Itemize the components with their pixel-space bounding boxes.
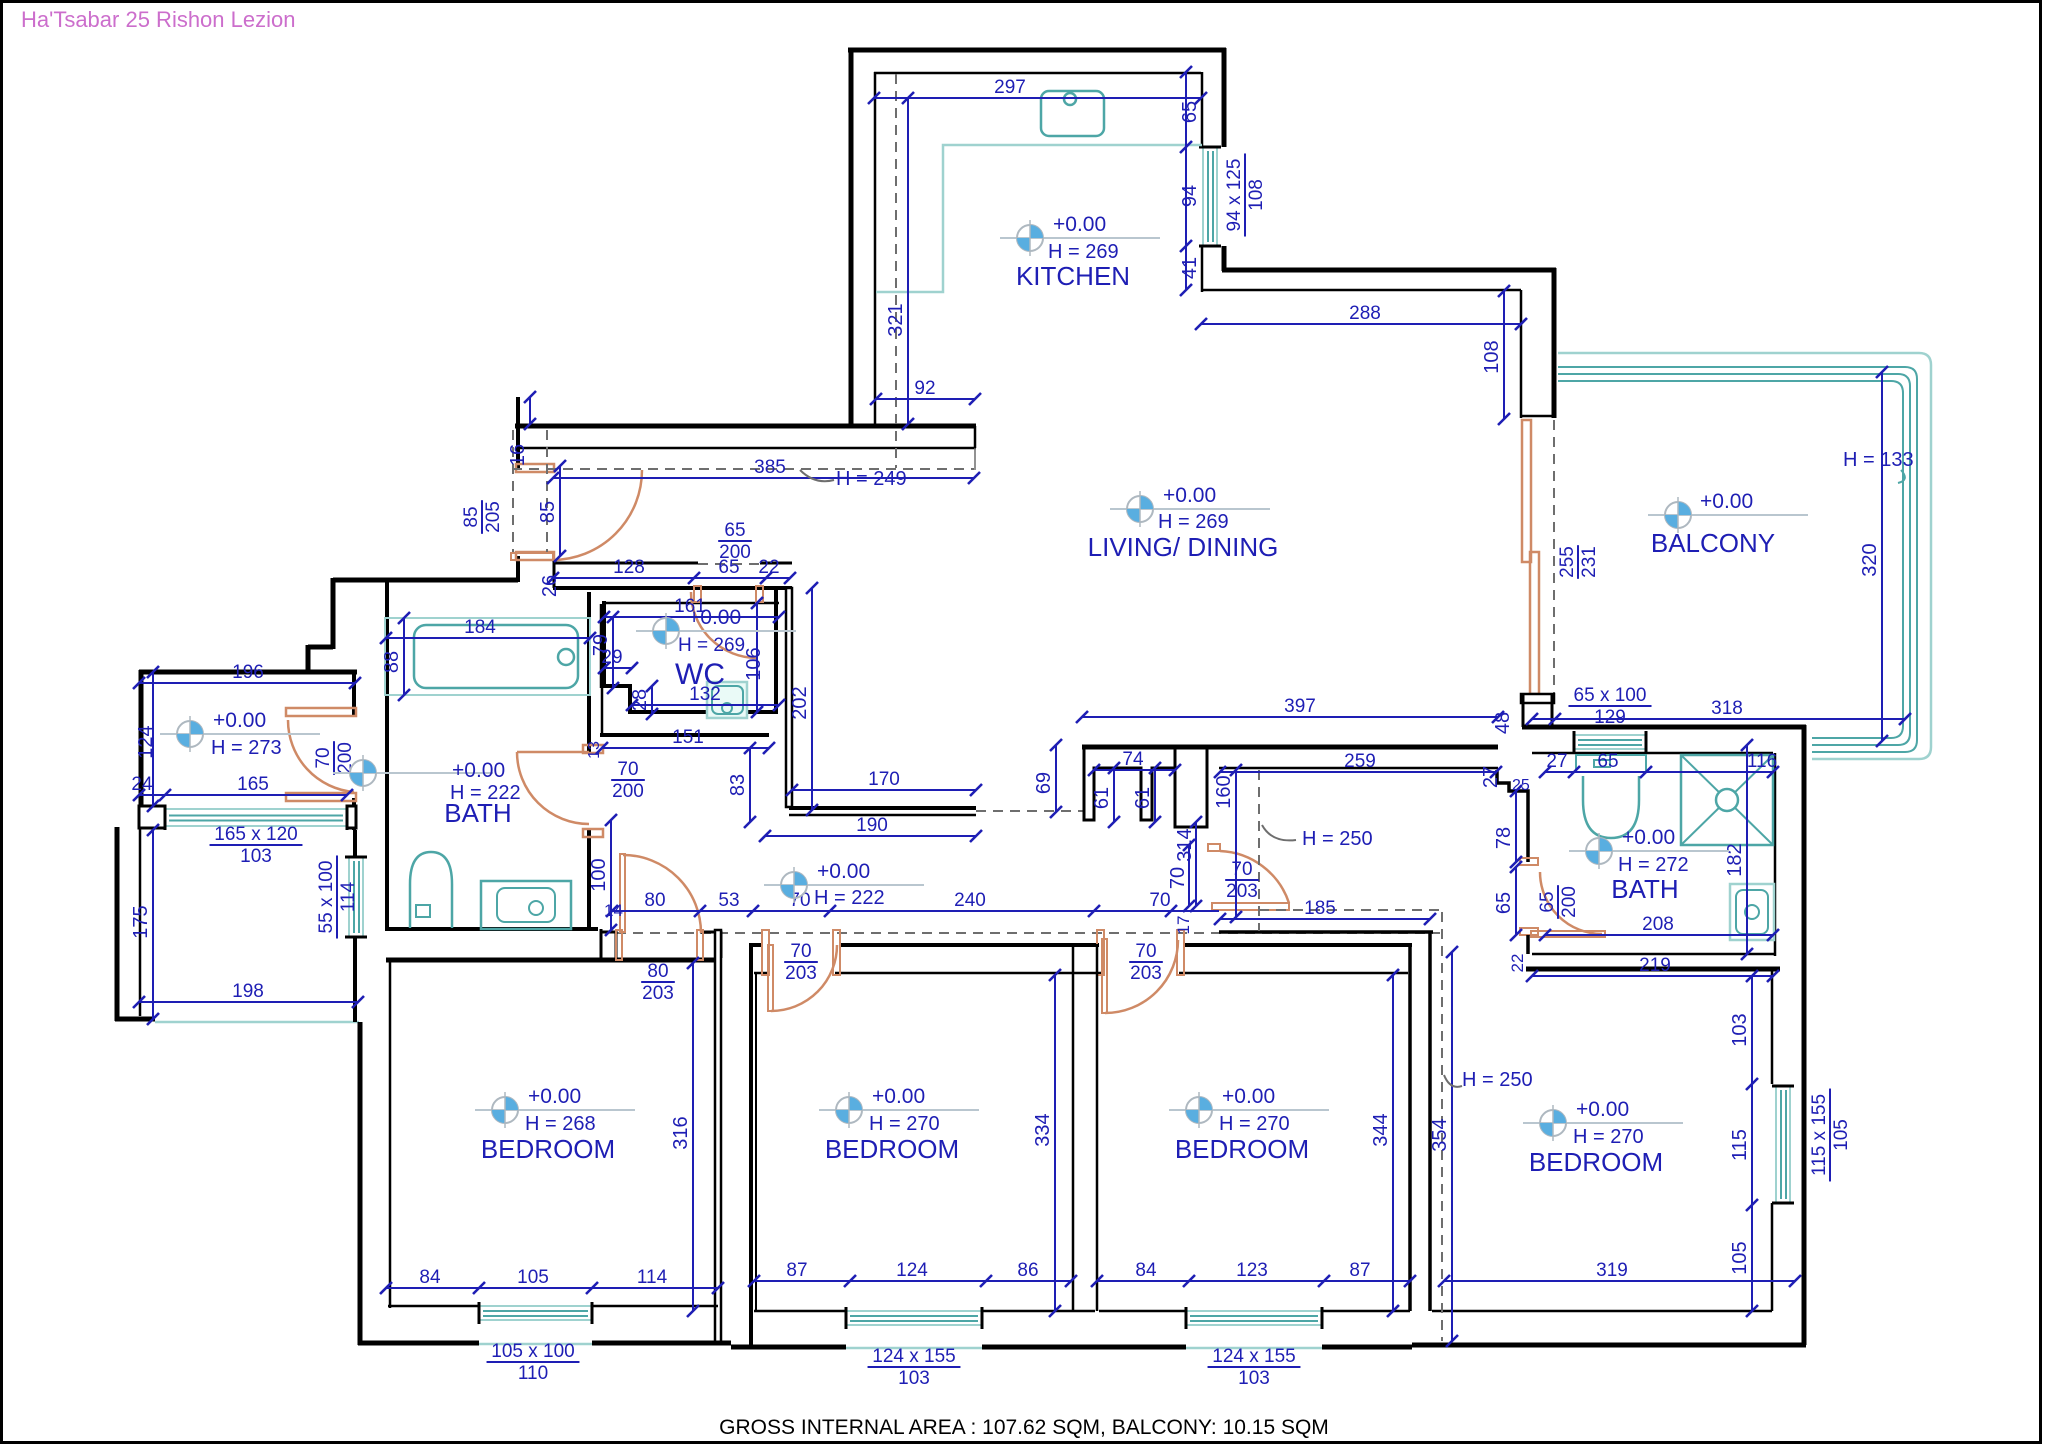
svg-text:124 x 155: 124 x 155 <box>1212 1346 1295 1367</box>
svg-text:H = 270: H = 270 <box>869 1113 940 1135</box>
door bedroom2 jamb right <box>833 930 840 975</box>
dim 128/65/22 hall bottom <box>553 577 790 579</box>
svg-text:29: 29 <box>601 647 622 668</box>
svg-text:170: 170 <box>868 769 900 790</box>
wall entry west <box>331 578 336 649</box>
door bedroom1 swing arc <box>623 855 701 933</box>
door bedroom2 jamb left <box>762 930 769 975</box>
wall balcony-left outer <box>1552 268 1557 418</box>
bathtub inner <box>414 625 578 688</box>
dim 65 bath-right door <box>1515 867 1517 935</box>
svg-text:14: 14 <box>604 901 623 920</box>
dim 288 living top <box>1201 323 1521 325</box>
dim 88 bathtub <box>403 618 405 695</box>
window bedroom1 105x100 <box>479 1302 592 1324</box>
wall hall-bottom top face right <box>760 562 792 565</box>
svg-text:184: 184 <box>464 617 496 638</box>
leader H250 corridor <box>1262 825 1296 840</box>
wall open-area right lower <box>353 937 357 1022</box>
terrace edge teal line <box>155 1021 359 1024</box>
wall open-area right upper <box>353 830 357 857</box>
svg-text:70: 70 <box>790 941 811 962</box>
dim 28 wc step v <box>651 686 653 714</box>
dim 175 left lower <box>152 830 154 1019</box>
svg-text:25: 25 <box>1512 777 1530 794</box>
door balcony sliding panel 2 <box>1530 552 1539 694</box>
svg-text:53: 53 <box>718 890 739 911</box>
label bath-right door 65/200 <box>1537 885 1580 919</box>
toilet bath-right flush <box>1594 760 1610 767</box>
balcony railing line2 <box>1558 374 1910 745</box>
svg-text:80: 80 <box>644 890 665 911</box>
wall bedroom23 top inner c <box>1179 972 1408 975</box>
svg-text:203: 203 <box>642 983 674 1004</box>
svg-text:100: 100 <box>588 858 610 891</box>
elevation marker balcony <box>1648 497 1808 533</box>
door bath-right jamb top <box>1520 858 1538 865</box>
svg-text:H = 268: H = 268 <box>525 1113 596 1135</box>
wall living-bottom top face <box>1082 745 1498 750</box>
svg-text:208: 208 <box>1642 914 1674 935</box>
svg-text:108: 108 <box>1246 179 1267 211</box>
svg-text:85: 85 <box>537 501 559 523</box>
svg-text:61: 61 <box>1132 787 1154 809</box>
svg-text:200: 200 <box>335 742 356 774</box>
label bedroom2 door 70/203 <box>784 941 818 984</box>
svg-text:H = 269: H = 269 <box>1158 511 1229 533</box>
wall entry step west <box>306 645 311 672</box>
svg-text:231: 231 <box>1579 546 1600 578</box>
door wc swing arc <box>691 592 757 658</box>
svg-text:48: 48 <box>1492 712 1514 734</box>
wall bath-left east upper <box>587 592 591 752</box>
door bath-left casing bottom <box>583 829 603 837</box>
column living pier <box>1175 747 1207 827</box>
dim 78 bath-right <box>1515 791 1517 862</box>
dim 190 corridor <box>765 835 976 837</box>
dim 196 storage width <box>139 682 355 684</box>
wall bedroom23 top face b <box>840 943 1099 947</box>
svg-text:288: 288 <box>1349 303 1381 324</box>
wall kitchen left inner <box>874 72 877 424</box>
svg-text:+0.00: +0.00 <box>213 709 266 732</box>
svg-text:116: 116 <box>1747 751 1777 772</box>
wall corridor-right bottom face <box>1219 930 1433 934</box>
svg-text:+0.00: +0.00 <box>1700 490 1753 513</box>
svg-text:297: 297 <box>994 77 1026 98</box>
leader H133 <box>1898 470 1905 483</box>
wall living-NE inner <box>1202 289 1521 292</box>
dashed closet line 1 <box>512 430 514 553</box>
wall bedroom23 top face a <box>749 943 763 947</box>
wall pier side right <box>1551 694 1554 727</box>
svg-text:103: 103 <box>1729 1013 1751 1046</box>
elevation marker living <box>1110 491 1270 527</box>
dim 79 wc <box>612 617 614 688</box>
dashed entry H249 line <box>512 468 974 470</box>
dim 314 passage <box>1195 822 1197 906</box>
wall kitchen top inner <box>874 72 1201 75</box>
svg-text:+0.00: +0.00 <box>1163 484 1216 507</box>
wall bedroom1 bottom outer east <box>592 1341 731 1346</box>
door bath-left leaf <box>517 751 589 754</box>
wall left-lower inner <box>139 828 142 1016</box>
door corridor leaf <box>1212 903 1289 910</box>
wall storage right lower <box>352 798 356 830</box>
svg-text:114: 114 <box>338 881 359 912</box>
wall bedroom4 east inner lower <box>1771 1203 1774 1311</box>
svg-text:124 x 155: 124 x 155 <box>872 1346 955 1367</box>
svg-text:115: 115 <box>1729 1129 1751 1161</box>
dim 83 <box>749 748 751 822</box>
toilet bath-left tank <box>416 905 430 917</box>
dim 219 below bath-right <box>1532 975 1773 977</box>
wall hall-bottom left cap <box>553 561 556 588</box>
shower diag1 <box>1681 755 1773 845</box>
leader H249 <box>800 470 834 481</box>
door bath-left swing arc <box>517 752 589 824</box>
wall hall-bottom top face left <box>553 562 698 565</box>
svg-text:86: 86 <box>1017 1260 1038 1281</box>
dim 397 living bottom <box>1082 716 1498 718</box>
svg-text:255: 255 <box>1557 546 1578 578</box>
svg-text:+0.00: +0.00 <box>1222 1085 1275 1108</box>
shower diag2 <box>1681 755 1773 845</box>
wall bedroom1 bottom outer west <box>358 1341 479 1346</box>
wall kitchen right inner upper <box>1201 72 1204 147</box>
wall bedroom23 top inner a <box>754 972 768 975</box>
dim 61 col1 <box>1113 768 1115 822</box>
door corridor swing arc <box>1220 851 1289 903</box>
label bedroom3 door 70/203 <box>1129 941 1163 984</box>
svg-text:87: 87 <box>1349 1260 1370 1281</box>
svg-text:108: 108 <box>1481 340 1503 373</box>
svg-text:H = 273: H = 273 <box>211 737 282 759</box>
wall bedroom23 bottom outer b <box>982 1345 1186 1350</box>
svg-text:H = 269: H = 269 <box>678 635 745 656</box>
svg-text:83: 83 <box>727 774 749 796</box>
wall pier side left <box>1522 694 1525 727</box>
svg-text:GROSS INTERNAL AREA : 107.62 S: GROSS INTERNAL AREA : 107.62 SQM, BALCON… <box>719 1416 1329 1439</box>
dim 16 entry stub <box>529 397 531 424</box>
dim 151 below wc <box>602 747 769 749</box>
wall entry pier upper <box>516 397 520 468</box>
svg-text:H = 272: H = 272 <box>1618 854 1689 876</box>
wall storage right upper <box>352 670 356 716</box>
svg-text:28: 28 <box>629 689 651 711</box>
wall corridor top face2 <box>789 814 976 817</box>
dim corridor bottom chain <box>612 910 1219 912</box>
svg-text:26: 26 <box>539 575 561 597</box>
wall bath-right bottom outer <box>1526 967 1780 972</box>
svg-text:88: 88 <box>381 651 403 673</box>
label window 105x100/110 <box>487 1341 580 1384</box>
svg-text:316: 316 <box>670 1116 692 1149</box>
dim 334 bedroom2 <box>1054 975 1056 1311</box>
dim 208 bath-right bottom <box>1545 934 1773 936</box>
svg-text:70: 70 <box>617 759 638 780</box>
dim 61 col2 <box>1154 768 1156 822</box>
wall wc left lower stub <box>601 686 604 737</box>
svg-text:22: 22 <box>758 557 779 578</box>
svg-text:H = 270: H = 270 <box>1573 1126 1644 1148</box>
svg-text:114: 114 <box>637 1267 668 1288</box>
label wc door 65/200 <box>718 520 752 563</box>
elevation marker kitchen <box>1000 220 1160 256</box>
svg-text:185: 185 <box>1304 898 1336 919</box>
wall corridor top face1 <box>789 806 976 810</box>
svg-text:198: 198 <box>232 981 264 1002</box>
door bath-right jamb bottom <box>1520 928 1538 935</box>
door entry casing top <box>516 464 554 472</box>
wall wc top inner <box>602 602 779 605</box>
sill teal bedroom2 window <box>846 1347 982 1350</box>
wall bedroom1 top band piece left <box>600 932 616 958</box>
svg-text:105: 105 <box>1831 1119 1852 1151</box>
door storage casing top <box>286 708 356 716</box>
wall bedroom34 partition w <box>1408 944 1412 1311</box>
wall wc left <box>602 601 606 688</box>
wall wc right <box>774 589 778 714</box>
wall right outer <box>1802 725 1807 1345</box>
svg-text:219: 219 <box>1639 955 1671 976</box>
svg-text:H = 270: H = 270 <box>1219 1113 1290 1135</box>
sink bath-right counter <box>1730 884 1774 940</box>
wall bedroom2 bottom inner left <box>754 1310 846 1313</box>
wall hall top outer <box>515 424 976 429</box>
dashed corridor-right H250 <box>1259 909 1442 911</box>
door entry casing bottom <box>516 552 554 560</box>
svg-text:+0.00: +0.00 <box>528 1085 581 1108</box>
wall bedroom2 left inner <box>755 973 757 1311</box>
svg-text:165 x 120: 165 x 120 <box>214 824 297 845</box>
door bedroom3 leaf <box>1102 939 1107 1013</box>
sill teal bedroom3 window <box>1186 1347 1322 1350</box>
dim 259 corridor-right top <box>1220 771 1496 773</box>
dashed wc door head <box>698 563 762 565</box>
sink bath-left counter <box>481 881 571 929</box>
svg-text:124: 124 <box>135 725 157 758</box>
svg-text:65 x 100: 65 x 100 <box>1574 685 1647 706</box>
wall storage left <box>139 670 144 808</box>
svg-text:KITCHEN: KITCHEN <box>1016 261 1130 291</box>
dim 106 wc height <box>756 603 758 712</box>
wall bedroom2 left outer <box>749 943 753 1347</box>
wall window165 right jamb <box>347 806 356 828</box>
wall entry step south <box>308 645 333 650</box>
dim 161 wc width <box>604 616 779 618</box>
svg-text:259: 259 <box>1344 751 1376 772</box>
window 165x120 <box>165 805 347 830</box>
door bedroom1 jamb left <box>616 930 622 960</box>
window bedroom3 124x155 <box>1186 1307 1322 1329</box>
svg-text:203: 203 <box>1226 881 1258 902</box>
wall corridor right jog <box>1497 770 1528 862</box>
svg-text:65: 65 <box>1537 891 1558 912</box>
balcony railing line1 <box>1558 367 1917 752</box>
dim 69 living col <box>1055 745 1057 812</box>
balcony railing line3 <box>1558 381 1903 738</box>
wall wc step h <box>602 684 632 688</box>
wall balcony-left cap <box>1521 415 1554 418</box>
window bedroom4 115x155 <box>1772 1086 1794 1203</box>
svg-text:41: 41 <box>1179 257 1201 279</box>
dim 344 bedroom3 <box>1392 975 1394 1311</box>
dim 65/94/41 kitchen right <box>1185 72 1187 290</box>
elevation marker bedroom2 <box>819 1092 979 1128</box>
wall entry south <box>333 578 518 583</box>
dim 316 bedroom1 <box>692 963 694 1311</box>
door corridor jamb <box>1208 844 1220 851</box>
sink bath-right basin <box>1736 890 1768 934</box>
svg-text:200: 200 <box>612 781 644 802</box>
wall bath-right west lower <box>1526 935 1530 954</box>
svg-text:61: 61 <box>1091 787 1113 809</box>
svg-text:BEDROOM: BEDROOM <box>481 1134 615 1164</box>
toilet bath-left bowl <box>410 852 452 928</box>
label window 94x125/108 <box>1224 153 1267 236</box>
elevation marker wc <box>636 613 796 649</box>
wall bedroom1 bottom inner right <box>592 1305 718 1308</box>
door wc jamb left <box>694 586 701 602</box>
label window 65x100/129 <box>1568 685 1651 728</box>
svg-text:Ha'Tsabar 25 Rishon Lezion: Ha'Tsabar 25 Rishon Lezion <box>21 7 295 32</box>
wall pier below balcony door <box>1521 694 1554 703</box>
dim 132 wc bottom <box>632 704 779 706</box>
dim 385 hall width <box>553 477 974 479</box>
door bedroom2 leaf <box>768 945 773 1011</box>
wall storage top <box>139 670 357 675</box>
svg-text:106: 106 <box>743 647 765 680</box>
wall bedroom1 bottom inner left <box>388 1305 479 1308</box>
wall hall top end gray stub <box>974 448 976 470</box>
dim 124 storage height <box>152 672 154 806</box>
svg-text:397: 397 <box>1284 696 1316 717</box>
svg-text:124: 124 <box>896 1260 928 1281</box>
wall bath-right east inner <box>1774 753 1777 956</box>
door bedroom3 swing arc <box>1105 940 1178 1013</box>
svg-text:318: 318 <box>1711 698 1743 719</box>
dim 108 balcony wall <box>1503 291 1505 419</box>
wall bath-left west <box>385 582 389 931</box>
closet front bar <box>511 553 553 560</box>
kitchen counter line <box>876 145 1202 292</box>
svg-text:H = 133: H = 133 <box>1843 449 1914 471</box>
svg-text:+0.00: +0.00 <box>817 860 870 883</box>
svg-text:74: 74 <box>1122 749 1144 770</box>
svg-text:103: 103 <box>1238 1368 1270 1389</box>
door entry swing arc <box>552 470 642 560</box>
svg-text:70: 70 <box>1167 867 1189 889</box>
wall bedroom1 top band piece right <box>700 932 721 958</box>
svg-text:LIVING/ DINING: LIVING/ DINING <box>1088 532 1279 562</box>
wall bedroom23 bottom outer a <box>731 1345 846 1350</box>
svg-text:84: 84 <box>419 1267 441 1288</box>
svg-text:105: 105 <box>517 1267 549 1288</box>
wall bath-right bottom inner <box>1532 953 1775 956</box>
dashed living H250 drop <box>1258 770 1260 931</box>
svg-text:H = 269: H = 269 <box>1048 241 1119 263</box>
svg-text:80: 80 <box>647 961 668 982</box>
svg-text:27: 27 <box>1546 751 1567 772</box>
door bedroom2 swing arc <box>771 945 837 1011</box>
dim bedroom1 bottom chain <box>386 1287 718 1289</box>
sink bath-left drain <box>529 901 543 915</box>
dim bedroom2 bottom chain <box>754 1280 1071 1282</box>
svg-text:WC: WC <box>675 658 725 691</box>
door bedroom1 jamb right <box>697 930 703 960</box>
toilet bath-right tank <box>1576 755 1646 772</box>
svg-text:BEDROOM: BEDROOM <box>825 1134 959 1164</box>
dim 160 <box>1235 770 1237 917</box>
svg-text:190: 190 <box>856 815 888 836</box>
svg-text:321: 321 <box>885 303 907 336</box>
wall bedroom1 left inner <box>389 958 392 1308</box>
label window2 124x155/103 <box>868 1346 961 1389</box>
column living 1 <box>1084 747 1175 820</box>
door bedroom1 leaf <box>620 854 625 932</box>
svg-text:319: 319 <box>1596 1260 1628 1281</box>
door bath-right swing arc <box>1540 872 1602 934</box>
svg-text:182: 182 <box>1724 843 1746 876</box>
sink bath-right drain <box>1745 905 1759 919</box>
dashed closet line 2 <box>546 430 548 553</box>
dim 198 bottom left <box>139 1001 358 1003</box>
svg-text:160: 160 <box>1213 775 1235 808</box>
wall bedroom1 right <box>715 930 721 1343</box>
wall bedroom34 partition e <box>1428 932 1432 1311</box>
dim bath-right top chain <box>1545 771 1773 773</box>
wall kitchen right inner lower <box>1201 246 1204 292</box>
svg-text:85: 85 <box>461 506 482 527</box>
wall bedroom23 top face c <box>1183 943 1412 947</box>
wall left-lower bottom <box>115 1017 155 1022</box>
elevation marker bedroom1 <box>475 1092 635 1128</box>
svg-text:240: 240 <box>954 890 986 911</box>
svg-text:65: 65 <box>724 520 745 541</box>
svg-text:BATH: BATH <box>444 798 511 828</box>
toilet bath-right bowl <box>1583 776 1639 838</box>
svg-text:27: 27 <box>1480 766 1502 788</box>
label corridor door 70/203 <box>1225 859 1259 902</box>
label window 165x120/103 <box>210 824 303 867</box>
wall bedroom4 bottom inner <box>1432 1310 1772 1313</box>
wall bedroom23 top inner b <box>835 972 1101 975</box>
dim 320 balcony height <box>1881 372 1883 741</box>
svg-text:24: 24 <box>131 774 153 795</box>
dashed corridor opening H250 <box>976 810 1084 812</box>
svg-text:+0.00: +0.00 <box>1053 213 1106 236</box>
door bedroom3 jamb left <box>1097 930 1104 975</box>
dim bedroom3 bottom chain <box>1097 1280 1410 1282</box>
window bath-right 65x100 <box>1574 731 1646 753</box>
wall bath-left east lower <box>587 829 591 931</box>
dim 182 bath-right height <box>1746 745 1748 954</box>
kitchen sink <box>1041 91 1104 136</box>
svg-text:103: 103 <box>240 846 272 867</box>
label storage door 70/200 <box>313 741 356 775</box>
elevation marker storage <box>160 716 320 752</box>
dim 70 passage door <box>1188 845 1190 906</box>
dim 24/165 window <box>139 794 347 796</box>
dim 297 kitchen width <box>874 97 1201 99</box>
window bedroom2 124x155 <box>846 1307 982 1329</box>
wall bath-left bottom outer <box>385 927 598 931</box>
svg-text:94: 94 <box>1179 185 1201 207</box>
svg-text:165: 165 <box>237 774 269 795</box>
svg-text:87: 87 <box>786 1260 807 1281</box>
dim 74 col gap <box>1094 769 1175 771</box>
